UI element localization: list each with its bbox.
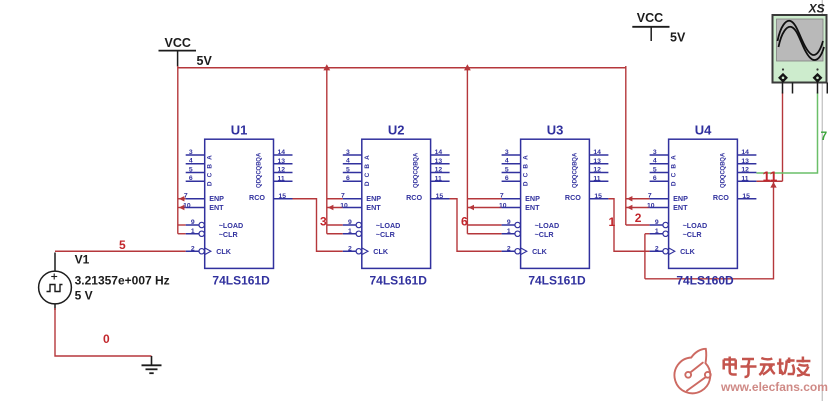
svg-text:15: 15 <box>279 193 287 200</box>
svg-text:CLK: CLK <box>373 247 389 256</box>
svg-text:7: 7 <box>500 193 504 200</box>
svg-text:5: 5 <box>119 238 126 252</box>
svg-text:U2: U2 <box>388 123 405 138</box>
svg-text:5: 5 <box>189 166 193 173</box>
svg-text:www.elecfans.com: www.elecfans.com <box>720 380 828 394</box>
svg-text:C: C <box>671 172 678 177</box>
svg-text:15: 15 <box>594 193 602 200</box>
svg-text:CLK: CLK <box>532 247 548 256</box>
svg-text:11: 11 <box>741 175 748 182</box>
svg-text:~CLR: ~CLR <box>376 230 396 239</box>
svg-text:14: 14 <box>741 149 749 156</box>
svg-text:~CLR: ~CLR <box>535 230 555 239</box>
svg-text:12: 12 <box>593 167 601 174</box>
svg-text:5: 5 <box>346 166 350 173</box>
svg-text:D: D <box>523 181 530 186</box>
svg-text:QC: QC <box>720 170 726 180</box>
svg-text:B: B <box>671 164 678 169</box>
svg-text:13: 13 <box>435 158 443 165</box>
svg-text:~LOAD: ~LOAD <box>219 221 244 230</box>
svg-text:A: A <box>523 155 530 160</box>
svg-text:6: 6 <box>653 175 657 182</box>
svg-text:ENT: ENT <box>366 203 381 212</box>
svg-text:XS: XS <box>808 1 825 15</box>
svg-text:QB: QB <box>257 161 263 171</box>
svg-text:74LS160D: 74LS160D <box>676 274 734 288</box>
svg-text:74LS161D: 74LS161D <box>212 274 270 288</box>
svg-text:11: 11 <box>593 175 600 182</box>
svg-text:QD: QD <box>414 178 420 188</box>
svg-text:2: 2 <box>191 245 195 252</box>
svg-text:CLK: CLK <box>680 247 696 256</box>
svg-text:2: 2 <box>655 245 659 252</box>
svg-text:11: 11 <box>435 175 442 182</box>
svg-text:3: 3 <box>189 149 193 156</box>
svg-text:U4: U4 <box>695 123 712 138</box>
svg-text:U1: U1 <box>231 123 248 138</box>
svg-text:~CLR: ~CLR <box>683 230 703 239</box>
svg-text:D: D <box>364 181 371 186</box>
svg-text:2: 2 <box>507 245 511 252</box>
svg-text:1: 1 <box>507 228 511 235</box>
svg-text:QD: QD <box>720 178 726 188</box>
svg-text:QD: QD <box>572 178 578 188</box>
svg-text:B: B <box>364 164 371 169</box>
svg-text:14: 14 <box>435 149 443 156</box>
svg-text:5 V: 5 V <box>75 289 93 303</box>
svg-text:14: 14 <box>278 149 286 156</box>
svg-text:6: 6 <box>189 175 193 182</box>
svg-text:7: 7 <box>184 193 188 200</box>
svg-text:D: D <box>207 181 214 186</box>
svg-text:4: 4 <box>505 158 509 165</box>
svg-text:A: A <box>207 155 214 160</box>
svg-text:15: 15 <box>436 193 444 200</box>
svg-text:9: 9 <box>507 219 511 226</box>
svg-text:VCC: VCC <box>165 36 191 50</box>
svg-text:10: 10 <box>647 202 655 209</box>
svg-text:ENT: ENT <box>673 203 688 212</box>
svg-text:QA: QA <box>720 152 726 162</box>
svg-text:5V: 5V <box>670 31 686 45</box>
svg-text:0: 0 <box>103 332 110 346</box>
svg-text:QB: QB <box>572 161 578 171</box>
svg-text:~LOAD: ~LOAD <box>683 221 708 230</box>
svg-text:ENP: ENP <box>209 194 224 203</box>
svg-text:RCO: RCO <box>713 193 729 202</box>
svg-text:6: 6 <box>346 175 350 182</box>
svg-text:9: 9 <box>348 219 352 226</box>
svg-text:10: 10 <box>183 202 191 209</box>
svg-text:15: 15 <box>742 193 750 200</box>
svg-text:7: 7 <box>821 129 828 143</box>
svg-text:QC: QC <box>257 170 263 180</box>
svg-text:1: 1 <box>191 228 195 235</box>
svg-text:C: C <box>207 172 214 177</box>
svg-text:C: C <box>523 172 530 177</box>
svg-text:1: 1 <box>348 228 352 235</box>
svg-text:7: 7 <box>648 193 652 200</box>
svg-text:3.21357e+007 Hz: 3.21357e+007 Hz <box>75 274 170 288</box>
svg-text:14: 14 <box>593 149 601 156</box>
svg-text:11: 11 <box>278 175 285 182</box>
svg-text:2: 2 <box>348 245 352 252</box>
svg-text:12: 12 <box>278 167 286 174</box>
svg-text:~CLR: ~CLR <box>219 230 239 239</box>
svg-text:13: 13 <box>278 158 286 165</box>
svg-text:9: 9 <box>655 219 659 226</box>
svg-text:13: 13 <box>593 158 601 165</box>
svg-text:12: 12 <box>435 167 443 174</box>
svg-text:4: 4 <box>189 158 193 165</box>
svg-text:~LOAD: ~LOAD <box>376 221 401 230</box>
svg-text:ENT: ENT <box>209 203 224 212</box>
svg-text:13: 13 <box>741 158 749 165</box>
svg-text:6: 6 <box>461 214 468 228</box>
svg-text:3: 3 <box>653 149 657 156</box>
svg-text:QB: QB <box>414 161 420 171</box>
svg-text:QA: QA <box>257 152 263 162</box>
svg-text:3: 3 <box>505 149 509 156</box>
svg-text:A: A <box>364 155 371 160</box>
svg-text:ENP: ENP <box>525 194 540 203</box>
svg-text:4: 4 <box>346 158 350 165</box>
svg-text:QD: QD <box>257 178 263 188</box>
svg-text:74LS161D: 74LS161D <box>528 274 586 288</box>
svg-text:3: 3 <box>346 149 350 156</box>
svg-text:ENT: ENT <box>525 203 540 212</box>
svg-text:V1: V1 <box>75 253 90 267</box>
svg-text:12: 12 <box>741 167 749 174</box>
svg-text:5V: 5V <box>197 54 213 68</box>
svg-text:1: 1 <box>609 215 616 229</box>
svg-text:VCC: VCC <box>637 11 663 25</box>
svg-text:C: C <box>364 172 371 177</box>
svg-text:10: 10 <box>340 202 348 209</box>
svg-text:ENP: ENP <box>366 194 381 203</box>
svg-text:RCO: RCO <box>249 193 265 202</box>
svg-text:QB: QB <box>720 161 726 171</box>
svg-text:RCO: RCO <box>565 193 581 202</box>
svg-text:9: 9 <box>191 219 195 226</box>
svg-text:RCO: RCO <box>406 193 422 202</box>
svg-text:7: 7 <box>341 193 345 200</box>
svg-text:B: B <box>207 164 214 169</box>
svg-text:A: A <box>671 155 678 160</box>
svg-text:1: 1 <box>655 228 659 235</box>
svg-text:10: 10 <box>499 202 507 209</box>
svg-text:11: 11 <box>763 168 778 184</box>
svg-text:U3: U3 <box>547 123 564 138</box>
svg-text:74LS161D: 74LS161D <box>370 274 428 288</box>
svg-text:5: 5 <box>653 166 657 173</box>
svg-text:QC: QC <box>414 170 420 180</box>
svg-text:5: 5 <box>505 166 509 173</box>
svg-text:~LOAD: ~LOAD <box>535 221 560 230</box>
svg-text:B: B <box>523 164 530 169</box>
svg-text:2: 2 <box>635 211 642 225</box>
svg-text:QA: QA <box>572 152 578 162</box>
svg-text:3: 3 <box>320 214 327 228</box>
svg-text:D: D <box>671 181 678 186</box>
svg-text:CLK: CLK <box>216 247 232 256</box>
svg-text:QA: QA <box>414 152 420 162</box>
svg-text:4: 4 <box>653 158 657 165</box>
svg-text:6: 6 <box>505 175 509 182</box>
svg-text:ENP: ENP <box>673 194 688 203</box>
svg-text:QC: QC <box>572 170 578 180</box>
